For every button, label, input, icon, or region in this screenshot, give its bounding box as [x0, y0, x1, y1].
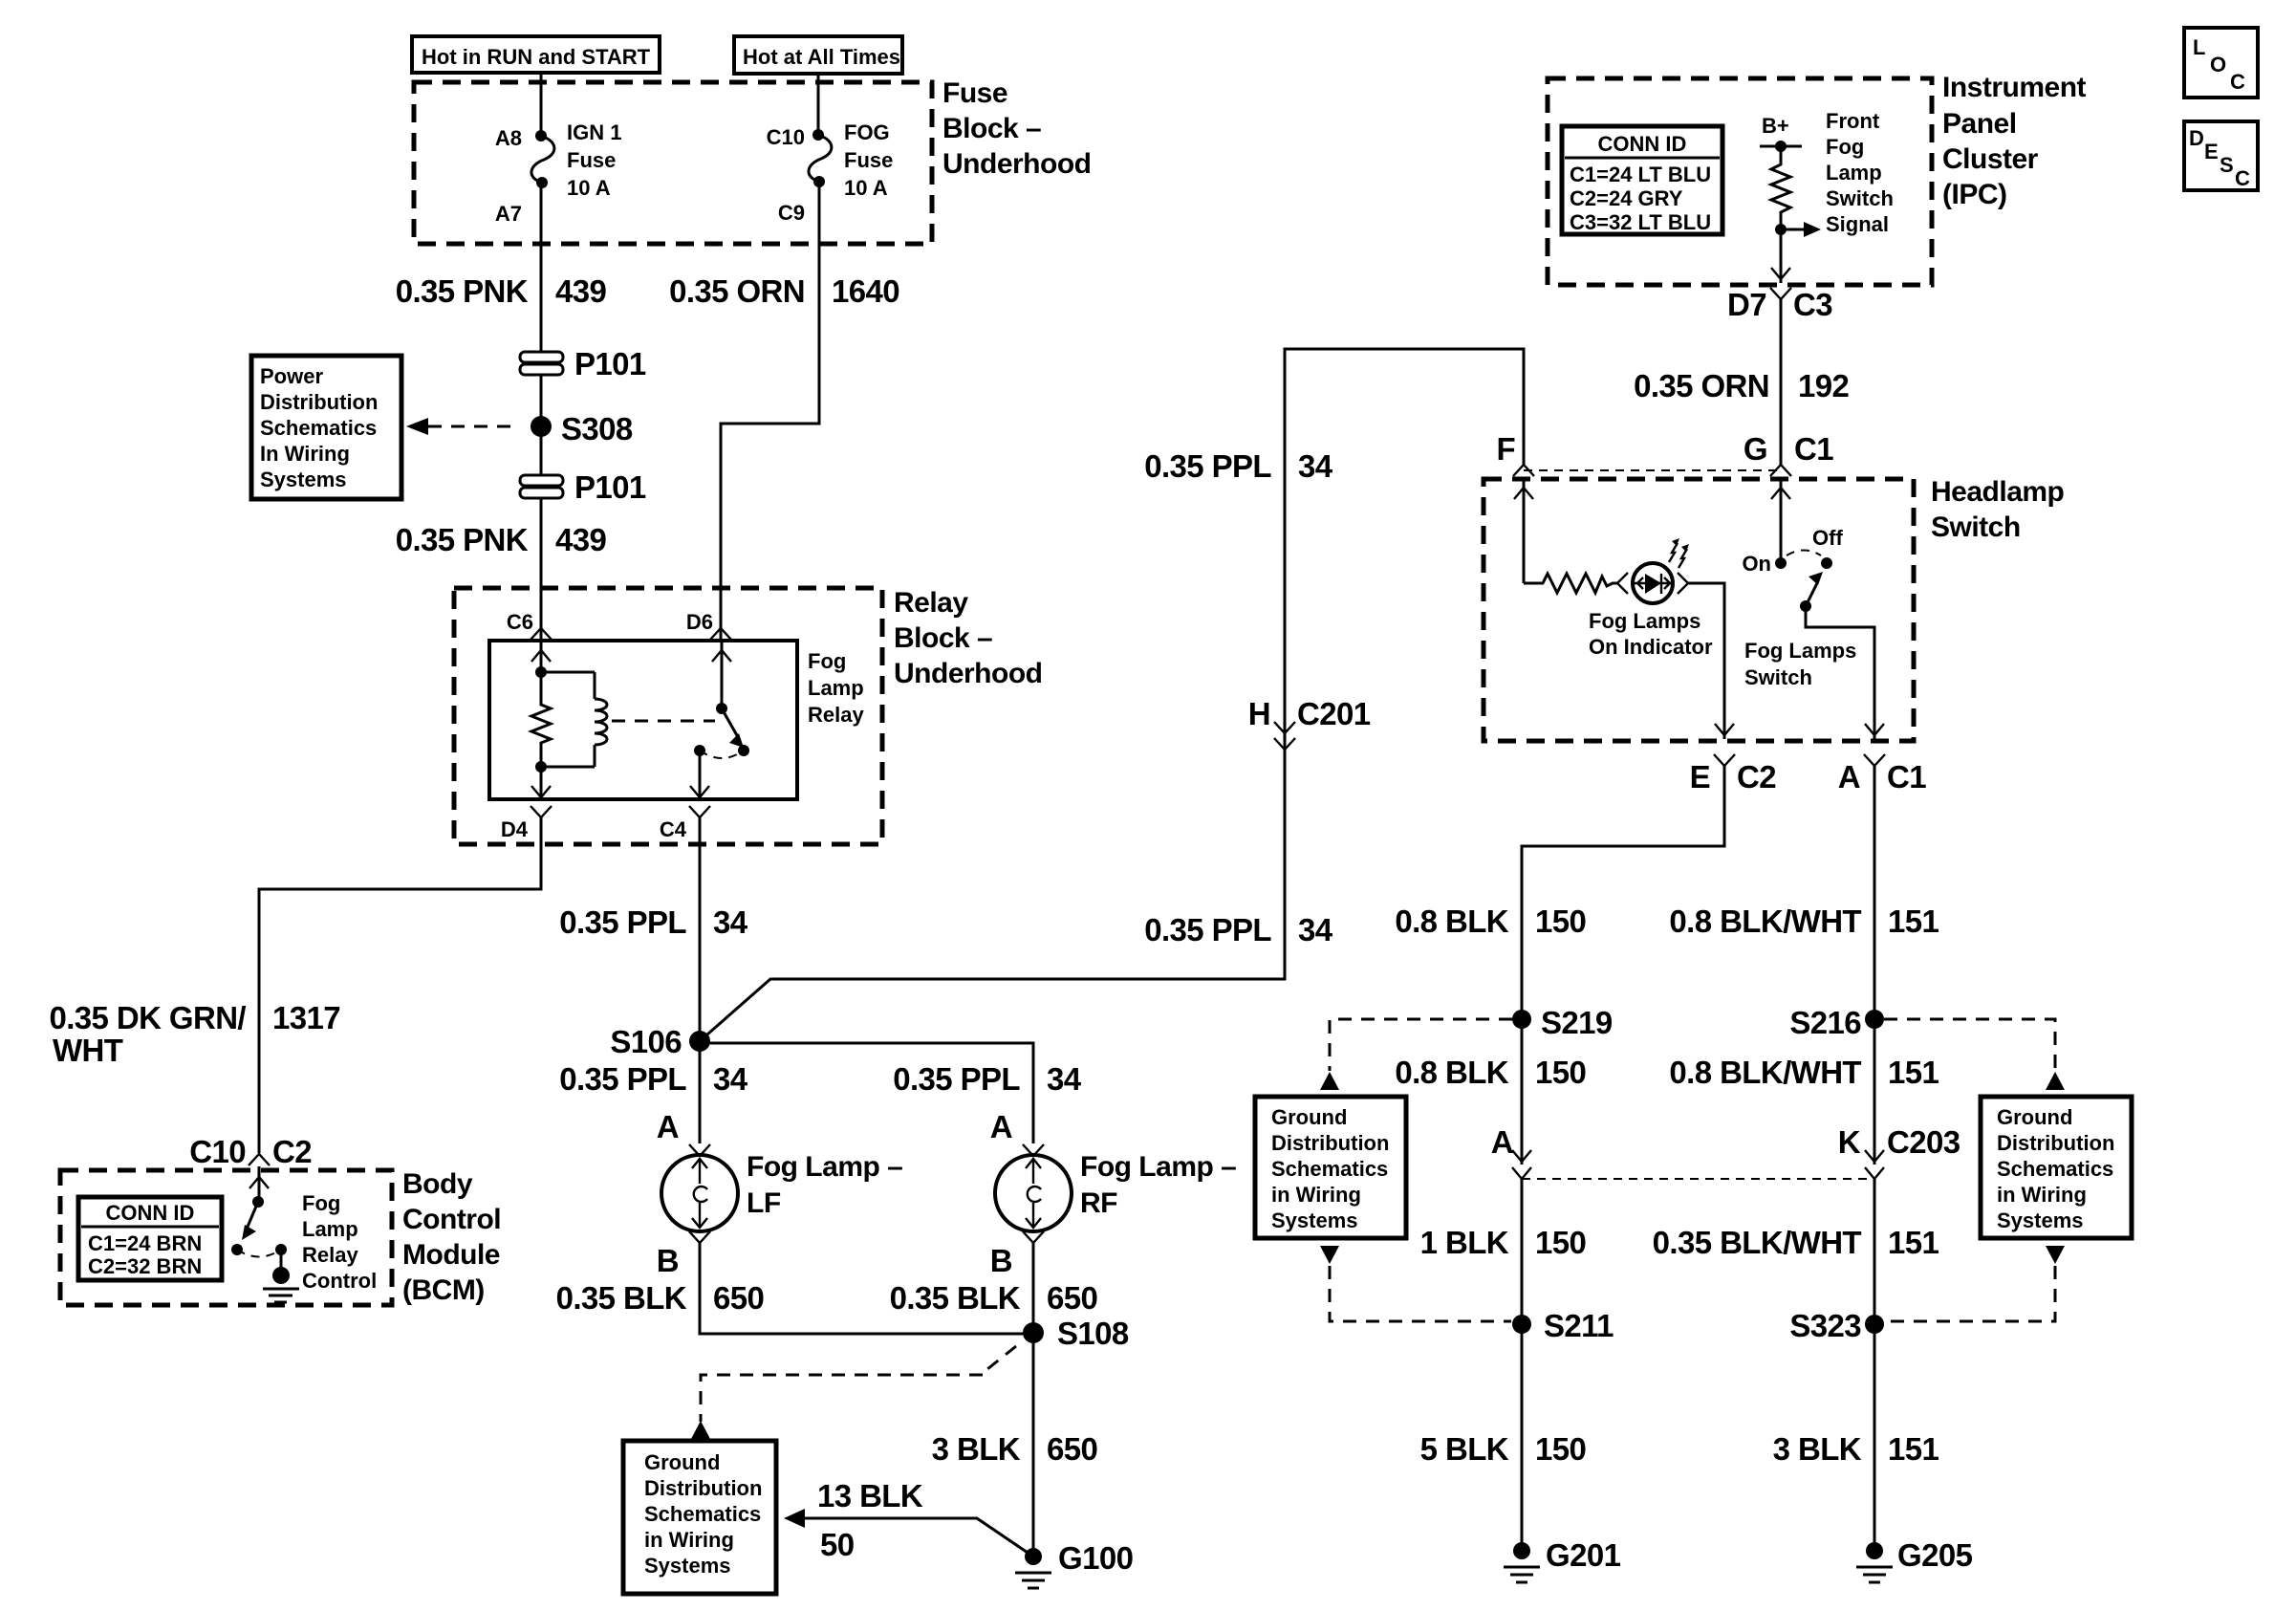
fuse F2 FOG Fuse 10 A [767, 120, 894, 225]
lamp Fog Lamp - RF [995, 1155, 1072, 1231]
dashed reference from left box to S211 [1320, 1246, 1511, 1321]
node B+ (IPC) [1760, 114, 1802, 152]
pin C4 [660, 806, 710, 841]
pin F (headlamp switch) [1496, 431, 1534, 476]
wire coil node to D4 with arrow [531, 767, 551, 799]
svg-text:K: K [1838, 1124, 1861, 1160]
svg-text:B: B [990, 1243, 1012, 1278]
svg-text:S108: S108 [1057, 1316, 1129, 1351]
svg-text:C9: C9 [778, 201, 805, 225]
svg-text:0.35 BLK/WHT: 0.35 BLK/WHT [1653, 1225, 1862, 1260]
lamp Fog Lamp - LF [661, 1155, 738, 1231]
header box Hot at All Times [734, 36, 902, 74]
svg-text:Control: Control [402, 1204, 501, 1235]
svg-text:B: B [657, 1243, 679, 1278]
connector pin K C203 [1838, 1124, 1960, 1179]
svg-text:On Indicator: On Indicator [1589, 635, 1713, 659]
svg-text:Block –: Block – [942, 113, 1041, 144]
svg-text:Schematics: Schematics [1997, 1157, 2113, 1181]
svg-text:0.8 BLK: 0.8 BLK [1395, 903, 1508, 939]
svg-text:150: 150 [1535, 903, 1586, 939]
svg-text:A: A [1491, 1124, 1513, 1160]
svg-text:50: 50 [820, 1527, 855, 1562]
label Fuse Block - Underhood [942, 77, 1091, 180]
pin chevron into LED [1617, 573, 1628, 594]
svg-text:Underhood: Underhood [894, 658, 1042, 689]
pin A C1 (headlamp switch) [1838, 754, 1926, 795]
svg-text:Headlamp: Headlamp [1931, 476, 2065, 508]
svg-text:C10: C10 [189, 1134, 246, 1169]
pin C10 C2 (BCM) [189, 1134, 312, 1169]
label 3 BLK 650 [932, 1431, 1098, 1467]
svg-text:151: 151 [1888, 1431, 1939, 1467]
connector P101 (upper) [520, 346, 646, 381]
resistor R2 (IPC fog lamp indicator feed) [1771, 146, 1790, 229]
svg-text:S106: S106 [610, 1024, 682, 1059]
svg-text:Distribution: Distribution [260, 390, 378, 414]
svg-text:C1=24 LT BLU: C1=24 LT BLU [1570, 163, 1711, 186]
svg-text:C2=32 BRN: C2=32 BRN [88, 1254, 202, 1278]
label 0.35 PNK 439 (second) [396, 522, 607, 557]
module Headlamp Switch (dashed box) [1484, 479, 1914, 741]
svg-text:A: A [1838, 759, 1860, 795]
wire from Hot at All Times box to fuse C10 [817, 74, 820, 135]
svg-text:D4: D4 [501, 817, 529, 841]
label 0.35 PPL 34 (lower, below C201) [1144, 912, 1333, 947]
svg-text:151: 151 [1888, 1055, 1939, 1090]
svg-text:C2: C2 [1737, 759, 1776, 795]
wire 0.35 BLK 650 from LF B to S108 [700, 1243, 1033, 1334]
resistor R1 (relay) [531, 672, 551, 767]
svg-text:CONN ID: CONN ID [1598, 132, 1687, 156]
svg-text:E: E [1690, 759, 1710, 795]
svg-text:0.35 PPL: 0.35 PPL [1144, 448, 1271, 484]
svg-text:Front: Front [1826, 109, 1880, 133]
svg-text:Fog: Fog [1826, 135, 1864, 159]
connector D7 C3 [1727, 287, 1832, 322]
wire 5 BLK 150 from S211 to G201 [1521, 1324, 1524, 1551]
wire 0.35 ORN 192 from D7 to headlamp switch G [1780, 299, 1783, 465]
relay coil bottom node [535, 761, 547, 773]
wire 0.35 PNK 439 from P101 to relay block C6 [540, 498, 543, 641]
pin A (Fog Lamp RF) [990, 1109, 1044, 1156]
label 0.35 ORN 1640 [669, 273, 899, 309]
svg-text:Underhood: Underhood [942, 148, 1091, 180]
svg-text:Off: Off [1812, 526, 1843, 550]
svg-text:0.35 PNK: 0.35 PNK [396, 522, 529, 557]
label 1 BLK 150 [1420, 1225, 1587, 1260]
svg-text:34: 34 [713, 1061, 748, 1097]
svg-text:S216: S216 [1789, 1005, 1861, 1040]
svg-text:Relay: Relay [302, 1243, 358, 1267]
svg-text:650: 650 [1047, 1280, 1097, 1316]
connector face line F to G (thin dashed) [1524, 469, 1781, 471]
pin B (Fog Lamp RF) [990, 1231, 1044, 1278]
module Relay Block - Underhood (dashed box) [454, 588, 882, 844]
svg-text:Distribution: Distribution [1997, 1131, 2114, 1155]
svg-text:A8: A8 [495, 126, 522, 150]
svg-text:G205: G205 [1897, 1537, 1973, 1573]
svg-text:Fog Lamps: Fog Lamps [1744, 639, 1856, 663]
svg-text:Fog: Fog [302, 1191, 340, 1215]
svg-text:Ground: Ground [1271, 1105, 1347, 1129]
wire S106 to RF lamp [700, 1043, 1033, 1143]
svg-text:3 BLK: 3 BLK [1773, 1431, 1862, 1467]
svg-text:439: 439 [555, 273, 607, 309]
label 0.35 PPL 34 (C4 wire) [559, 904, 748, 940]
connector P101 (lower) [520, 469, 646, 505]
svg-text:Fuse: Fuse [567, 148, 616, 172]
svg-text:C6: C6 [507, 610, 533, 634]
label Fog Lamps Switch [1744, 639, 1856, 689]
svg-text:C203: C203 [1887, 1124, 1960, 1160]
svg-text:0.35 PPL: 0.35 PPL [559, 1061, 686, 1097]
wire S106 to headlamp switch F (diagonal, up and over) [700, 349, 1524, 1041]
resistor R3 (fog lamps on indicator) [1524, 574, 1617, 593]
svg-text:Lamp: Lamp [1826, 161, 1882, 185]
label 0.35 ORN 192 [1634, 368, 1849, 403]
relay K1 Fog Lamp Relay (box) [489, 641, 797, 799]
wire 0.8 BLK/WHT 151 from A C1 to S216 [1874, 766, 1876, 1019]
reference box Ground Distribution Schematics in Wiring Systems (left) [1255, 1097, 1406, 1238]
svg-text:C2: C2 [272, 1134, 312, 1169]
label Fog Lamp Relay [808, 649, 864, 727]
dashed reference pointer from Ground Distribution box to S108 [691, 1346, 1016, 1439]
svg-text:S: S [2220, 153, 2234, 177]
wire 0.35 DK GRN/WHT 1317 from D4 to BCM C2 [259, 817, 541, 1153]
label 5 BLK 150 [1420, 1431, 1587, 1467]
svg-text:S323: S323 [1789, 1308, 1861, 1343]
coil L1 (relay) [541, 672, 607, 767]
svg-text:Hot at All Times: Hot at All Times [743, 45, 900, 69]
label 0.35 PPL 34 (RF branch) [893, 1061, 1082, 1097]
svg-text:0.8 BLK/WHT: 0.8 BLK/WHT [1669, 1055, 1861, 1090]
svg-text:C4: C4 [660, 817, 687, 841]
wire 0.8 BLK 150 from E C2 to S219 [1522, 766, 1724, 1019]
svg-text:C: C [2235, 166, 2250, 190]
svg-text:in Wiring: in Wiring [1271, 1183, 1361, 1207]
wire 13 BLK 50 with arrow to G100 [784, 1478, 1033, 1562]
svg-text:34: 34 [1047, 1061, 1082, 1097]
module Fuse Block - Underhood (dashed box) [414, 82, 932, 244]
wire LED to E pin [1688, 583, 1734, 739]
svg-text:0.8 BLK/WHT: 0.8 BLK/WHT [1669, 903, 1861, 939]
connector face line C203 (thin dashed) [1522, 1178, 1874, 1180]
svg-text:0.35 PPL: 0.35 PPL [559, 904, 686, 940]
svg-text:G: G [1744, 431, 1767, 467]
svg-text:150: 150 [1535, 1055, 1586, 1090]
svg-text:CONN ID: CONN ID [106, 1201, 195, 1225]
svg-text:D: D [2189, 126, 2204, 150]
wire G down to On contact [1771, 479, 1790, 563]
svg-text:O: O [2210, 53, 2226, 76]
svg-text:0.35 DK GRN/: 0.35 DK GRN/ [49, 1000, 246, 1035]
ground G201 [1504, 1537, 1621, 1582]
svg-text:Switch: Switch [1931, 512, 2021, 543]
svg-text:Distribution: Distribution [1271, 1131, 1389, 1155]
svg-text:in Wiring: in Wiring [1997, 1183, 2087, 1207]
svg-text:S308: S308 [561, 411, 633, 446]
pin A (Fog Lamp LF) [657, 1109, 710, 1156]
legend box DESC [2184, 121, 2258, 190]
svg-text:Systems: Systems [1997, 1208, 2084, 1232]
wire 3 BLK 151 from S323 to G205 [1874, 1324, 1876, 1551]
label Fog Lamp Relay Control [302, 1191, 377, 1293]
ground symbol (BCM) [263, 1267, 299, 1302]
svg-text:0.35 PNK: 0.35 PNK [396, 273, 529, 309]
svg-text:Module: Module [402, 1239, 500, 1271]
label 0.8 BLK/WHT 151 (above S216) [1669, 903, 1939, 939]
svg-text:439: 439 [555, 522, 607, 557]
reference box Ground Distribution Schematics in Wiring Systems (right) [1981, 1097, 2132, 1238]
reference box Ground Distribution Schematics in Wiring Systems (center) [623, 1441, 776, 1594]
svg-text:G201: G201 [1546, 1537, 1621, 1573]
splice S323 [1789, 1308, 1884, 1343]
dashed reference from S219 to left Ground Distribution box [1320, 1019, 1512, 1090]
svg-text:34: 34 [1298, 448, 1333, 484]
svg-text:S211: S211 [1544, 1308, 1614, 1343]
svg-text:151: 151 [1888, 1225, 1939, 1260]
connector H C201 [1248, 696, 1371, 750]
svg-text:C1: C1 [1794, 431, 1833, 467]
svg-text:0.35 PPL: 0.35 PPL [1144, 912, 1271, 947]
signal tap arrow Front Fog Lamp Switch Signal [1775, 222, 1821, 237]
svg-text:C10: C10 [767, 125, 805, 149]
svg-text:Ground: Ground [644, 1450, 720, 1474]
svg-text:A: A [990, 1109, 1012, 1144]
wire S219 down to connector A [1521, 1019, 1524, 1165]
svg-text:Switch: Switch [1826, 186, 1894, 210]
svg-text:0.35 PPL: 0.35 PPL [893, 1061, 1020, 1097]
svg-text:C3=32 LT BLU: C3=32 LT BLU [1570, 210, 1711, 234]
ground G205 [1856, 1537, 1973, 1582]
svg-text:Body: Body [402, 1168, 473, 1200]
label Instrument Panel Cluster (IPC) [1942, 72, 2087, 210]
svg-text:D6: D6 [686, 610, 713, 634]
svg-text:B+: B+ [1762, 114, 1789, 138]
svg-text:5 BLK: 5 BLK [1420, 1431, 1509, 1467]
label 0.35 PPL 34 (LF branch) [559, 1061, 748, 1097]
svg-text:1640: 1640 [832, 273, 899, 309]
svg-text:151: 151 [1888, 903, 1939, 939]
svg-text:192: 192 [1798, 368, 1850, 403]
svg-text:On: On [1742, 552, 1771, 576]
svg-text:Control: Control [302, 1269, 377, 1293]
reference box Power Distribution Schematics In Wiring Systems [251, 356, 401, 499]
svg-text:Cluster: Cluster [1942, 143, 2039, 175]
BCM fog lamp relay control driver (switch to ground) [231, 1166, 287, 1272]
label 0.35 PPL 34 (upper, at F) [1144, 448, 1333, 484]
svg-text:150: 150 [1535, 1431, 1586, 1467]
svg-text:0.35 ORN: 0.35 ORN [669, 273, 805, 309]
dashed actuation link coil to switch [612, 720, 715, 723]
label Body Control Module (BCM) [402, 1168, 501, 1306]
svg-text:Schematics: Schematics [1271, 1157, 1388, 1181]
svg-text:L: L [2193, 35, 2205, 59]
header box Hot in RUN and START [412, 36, 660, 73]
wire P101 to S308 to P101 [540, 375, 543, 475]
svg-text:Lamp: Lamp [302, 1217, 358, 1241]
svg-text:Power: Power [260, 364, 323, 388]
svg-text:Systems: Systems [260, 468, 347, 491]
wire C6 into relay coil node [531, 641, 551, 678]
svg-text:(BCM): (BCM) [402, 1274, 485, 1306]
LED indicator Fog Lamps On Indicator [1633, 538, 1689, 603]
svg-text:P101: P101 [574, 469, 646, 505]
splice S108 [1023, 1316, 1129, 1351]
pin D4 [501, 806, 552, 841]
label 0.8 BLK 150 (below S219) [1395, 1055, 1586, 1090]
label Fog Lamps On Indicator [1589, 609, 1713, 659]
svg-text:650: 650 [1047, 1431, 1097, 1467]
legend box LOC [2184, 28, 2258, 98]
svg-text:P101: P101 [574, 346, 646, 381]
svg-text:Distribution: Distribution [644, 1476, 762, 1500]
label Headlamp Switch [1931, 476, 2065, 543]
label 0.35 DK GRN/WHT 1317 [49, 1000, 340, 1068]
svg-text:Fog: Fog [808, 649, 846, 673]
svg-text:Fog Lamps: Fog Lamps [1589, 609, 1700, 633]
wire 3 BLK 650 from S108 to G100 [1032, 1333, 1035, 1557]
svg-text:Signal: Signal [1826, 212, 1889, 236]
svg-text:0.35 ORN: 0.35 ORN [1634, 368, 1769, 403]
svg-text:Systems: Systems [644, 1554, 731, 1578]
svg-text:C1: C1 [1887, 759, 1926, 795]
pin E C2 (headlamp switch) [1690, 754, 1777, 795]
dashed reference from S216 to right Ground Distribution box [1884, 1019, 2065, 1090]
label 0.35 BLK 650 (RF) [890, 1280, 1098, 1316]
svg-text:0.35 BLK: 0.35 BLK [890, 1280, 1021, 1316]
wire from tap down out of IPC [1771, 229, 1790, 283]
dashed reference from right box to S323 [1885, 1246, 2065, 1321]
wire 0.35 BLK 650 from RF B to S108 [1032, 1243, 1035, 1331]
svg-text:C201: C201 [1297, 696, 1371, 731]
svg-text:A: A [657, 1109, 679, 1144]
svg-text:650: 650 [713, 1280, 764, 1316]
svg-text:In Wiring: In Wiring [260, 442, 350, 466]
dashed reference arrow from S308 to Power Distribution box [406, 418, 516, 435]
svg-text:Block –: Block – [894, 622, 992, 654]
svg-text:IGN 1: IGN 1 [567, 120, 621, 144]
pin B (Fog Lamp LF) [657, 1231, 710, 1278]
svg-text:Systems: Systems [1271, 1208, 1358, 1232]
svg-text:Fuse: Fuse [844, 148, 893, 172]
svg-text:S219: S219 [1541, 1005, 1613, 1040]
splice S106 [610, 1024, 710, 1059]
label 0.8 BLK 150 (above S219) [1395, 903, 1586, 939]
svg-text:RF: RF [1080, 1187, 1117, 1219]
svg-text:Schematics: Schematics [644, 1502, 761, 1526]
svg-text:C: C [2230, 70, 2245, 94]
wire 0.35 ORN 1640 from fuse C9 to relay block D6 [721, 182, 819, 641]
fuse F1 IGN 1 Fuse 10 A [495, 120, 622, 226]
splice S308 [531, 411, 633, 446]
svg-text:3 BLK: 3 BLK [932, 1431, 1021, 1467]
splice S211 [1512, 1308, 1614, 1343]
module Body Control Module BCM (dashed box) [60, 1170, 392, 1305]
wire 1 BLK 150 from A to S211 [1521, 1179, 1524, 1324]
label Front Fog Lamp Switch Signal [1826, 109, 1894, 236]
svg-text:F: F [1496, 431, 1515, 467]
svg-text:D7: D7 [1727, 287, 1766, 322]
label 0.35 BLK 650 (LF) [556, 1280, 765, 1316]
svg-text:(IPC): (IPC) [1942, 179, 2007, 210]
connector pin A (C203) [1491, 1124, 1531, 1179]
CONN ID table (BCM) [78, 1197, 222, 1280]
svg-text:Instrument: Instrument [1942, 72, 2087, 103]
svg-text:150: 150 [1535, 1225, 1586, 1260]
svg-text:10 A: 10 A [844, 176, 888, 200]
svg-text:34: 34 [1298, 912, 1333, 947]
svg-text:1317: 1317 [272, 1000, 340, 1035]
svg-text:Hot in RUN and START: Hot in RUN and START [422, 45, 651, 69]
module Instrument Panel Cluster IPC (dashed box) [1548, 78, 1932, 285]
wire 0.35 PPL 34 from C4 to S106 [699, 817, 702, 1143]
svg-text:34: 34 [713, 904, 748, 940]
wire F down to indicator resistor [1514, 479, 1533, 583]
svg-text:0.35 BLK: 0.35 BLK [556, 1280, 687, 1316]
svg-text:13 BLK: 13 BLK [817, 1478, 923, 1513]
svg-text:Panel: Panel [1942, 108, 2017, 140]
pin D6 [686, 610, 731, 640]
svg-text:LF: LF [747, 1187, 781, 1219]
svg-text:in Wiring: in Wiring [644, 1528, 734, 1552]
svg-text:Fog Lamp –: Fog Lamp – [747, 1151, 902, 1183]
wire 0.35 BLK/WHT 151 from K to S323 [1874, 1179, 1876, 1324]
label Fog Lamp - RF [1080, 1151, 1236, 1219]
label 0.35 PNK 439 [396, 273, 607, 309]
svg-text:C2=24 GRY: C2=24 GRY [1570, 186, 1683, 210]
svg-text:Lamp: Lamp [808, 676, 864, 700]
svg-text:A7: A7 [495, 202, 522, 226]
label Relay Block - Underhood [894, 587, 1042, 689]
svg-text:E: E [2204, 140, 2219, 163]
svg-text:C1=24 BRN: C1=24 BRN [88, 1231, 202, 1255]
wire from Hot in RUN box to fuse A8 [540, 73, 543, 136]
relay switch (movable contact from D6) [690, 641, 749, 799]
svg-text:Switch: Switch [1744, 665, 1812, 689]
label Fog Lamp - LF [747, 1151, 902, 1219]
ground G100 [1015, 1540, 1133, 1588]
svg-text:10 A: 10 A [567, 176, 611, 200]
svg-text:C3: C3 [1793, 287, 1832, 322]
splice S219 [1512, 1005, 1613, 1040]
pin G C1 (headlamp switch) [1744, 431, 1833, 476]
label 0.8 BLK/WHT 151 (below S216) [1669, 1055, 1939, 1090]
splice S216 [1789, 1005, 1884, 1040]
svg-text:Relay: Relay [894, 587, 968, 619]
svg-text:G100: G100 [1058, 1540, 1133, 1576]
svg-text:FOG: FOG [844, 120, 890, 144]
svg-text:1 BLK: 1 BLK [1420, 1225, 1509, 1260]
svg-text:Fuse: Fuse [942, 77, 1007, 109]
label 0.35 BLK/WHT 151 [1653, 1225, 1939, 1260]
svg-text:Ground: Ground [1997, 1105, 2072, 1129]
wire 0.35 PNK 439 from fuse A7 to P101 [540, 183, 543, 354]
svg-text:Relay: Relay [808, 703, 864, 727]
svg-text:Fog Lamp –: Fog Lamp – [1080, 1151, 1236, 1183]
label 3 BLK 151 [1773, 1431, 1939, 1467]
svg-text:H: H [1248, 696, 1270, 731]
pin chevron out of LED [1678, 573, 1688, 594]
wire S216 down to connector K [1874, 1019, 1876, 1165]
CONN ID table (IPC) [1562, 126, 1722, 234]
pin C6 [507, 610, 552, 640]
svg-text:WHT: WHT [53, 1033, 123, 1068]
svg-text:Schematics: Schematics [260, 416, 377, 440]
svg-text:0.8 BLK: 0.8 BLK [1395, 1055, 1508, 1090]
switch SW1 Fog Lamps Switch [1742, 526, 1884, 739]
